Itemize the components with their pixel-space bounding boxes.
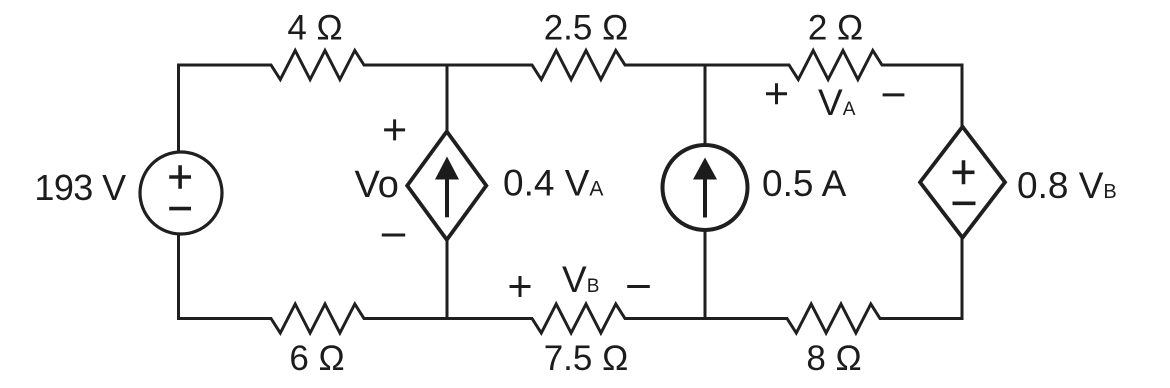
svg-text:VB: VB xyxy=(562,259,599,300)
svg-text:VA: VA xyxy=(818,82,856,123)
wire node3 vertical lower xyxy=(704,231,707,319)
node Vo plus xyxy=(382,83,905,297)
svg-text:8 Ω: 8 Ω xyxy=(806,339,861,378)
svg-text:2 Ω: 2 Ω xyxy=(808,9,863,48)
V1 minus sign xyxy=(169,207,191,211)
dependent current source D1 diamond xyxy=(407,132,486,240)
node Vo minus xyxy=(382,234,405,237)
D2 plus sign xyxy=(953,160,975,184)
svg-text:0.4 VA: 0.4 VA xyxy=(503,163,603,204)
svg-text:193 V: 193 V xyxy=(34,167,126,208)
svg-text:6 Ω: 6 Ω xyxy=(289,339,344,378)
D2 minus sign xyxy=(953,202,976,206)
wire top rail with resistors R1 R2 R3 xyxy=(179,51,963,153)
node VA plus xyxy=(766,83,787,104)
wire node2 vertical upper xyxy=(446,65,449,132)
V1 plus sign xyxy=(169,160,975,208)
D1 arrow xyxy=(435,157,717,218)
node VB minus xyxy=(627,285,650,288)
voltage source V1 circle xyxy=(140,152,222,234)
node VB plus xyxy=(510,276,531,297)
svg-text:2.5 Ω: 2.5 Ω xyxy=(544,9,629,48)
current source I1 circle xyxy=(663,145,748,230)
svg-text:0.5 A: 0.5 A xyxy=(762,163,847,204)
svg-text:4 Ω: 4 Ω xyxy=(287,9,342,48)
svg-text:0.8 VB: 0.8 VB xyxy=(1017,165,1117,206)
svg-text:7.5 Ω: 7.5 Ω xyxy=(544,339,629,378)
dependent voltage source D2 diamond xyxy=(920,127,1005,238)
node VA minus xyxy=(883,93,905,96)
wire node2 vertical lower xyxy=(446,240,449,319)
wire bottom rail with resistors R4 R5 R6 xyxy=(179,234,963,333)
svg-text:Vo: Vo xyxy=(355,164,399,206)
I1 arrow xyxy=(703,179,707,218)
wire node3 vertical upper xyxy=(704,65,707,145)
